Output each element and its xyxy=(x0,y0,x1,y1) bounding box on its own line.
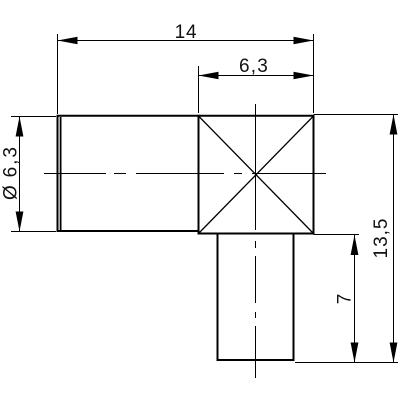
dimension line: 7 (inner right vertical) xyxy=(354,235,356,363)
svg-text:7: 7 xyxy=(335,294,356,305)
centerline: vertical axis dash-dot xyxy=(255,104,257,378)
body: flange diagonal 2 xyxy=(199,117,313,234)
centerline: horizontal axis dash-dot xyxy=(44,173,326,175)
arrowhead: dia 6,3 bottom xyxy=(16,212,24,232)
arrowhead: 7 top xyxy=(351,235,359,255)
dimension line: 13,5 (right vertical) xyxy=(393,115,395,363)
body: bottom tube outline xyxy=(218,234,294,360)
body: cylinder end-face double line xyxy=(60,117,62,230)
extension line: left of 6,3 dim (x=198) xyxy=(198,66,200,113)
extension line: left of 14 dim (x=57) xyxy=(57,34,59,114)
arrowhead: 13,5 top xyxy=(390,115,398,135)
body: flange diagonal 1 xyxy=(199,117,313,234)
extension line: bottom of 7 and 13,5 dims (y=362) xyxy=(295,362,398,364)
extension line: top of dia 6,3 dim (y=116) xyxy=(11,116,56,118)
extension line: top of 7 dim (y=235) xyxy=(314,234,360,236)
extension line: top of 13,5 dim (y=114.5) xyxy=(314,114,399,116)
extension line: right of 14/6,3 dims (x=313) xyxy=(313,34,315,113)
arrowhead: 13,5 bottom xyxy=(390,343,398,363)
extension line: bottom of dia 6,3 dim (y=231) xyxy=(11,231,56,233)
arrowhead: dia 6,3 top xyxy=(16,117,24,137)
svg-text:14: 14 xyxy=(175,22,198,43)
dimension line: 6,3 (upper) xyxy=(199,75,314,77)
body: square flange outline xyxy=(199,116,314,234)
arrowhead: 7 bottom xyxy=(351,343,359,363)
arrowhead: 14 right xyxy=(294,37,314,45)
arrowhead: 14 left xyxy=(58,37,78,45)
arrowhead: 6,3 right xyxy=(294,72,314,80)
svg-text:Ø 6,3: Ø 6,3 xyxy=(1,145,22,200)
svg-text:6,3: 6,3 xyxy=(239,56,269,77)
dimension line: dia 6,3 (left vertical) xyxy=(19,117,21,232)
arrowhead: 6,3 left xyxy=(199,72,219,80)
body: left cylinder outline xyxy=(58,116,199,231)
dimension line: 14 (top) xyxy=(58,40,314,42)
svg-text:13,5: 13,5 xyxy=(371,218,392,259)
